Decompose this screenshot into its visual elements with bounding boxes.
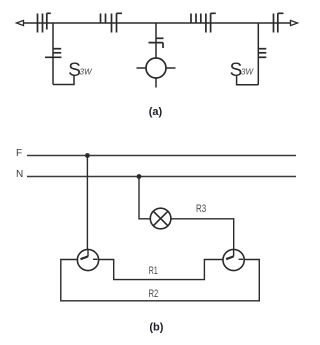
svg-text:F: F — [16, 148, 22, 159]
svg-text:R2: R2 — [149, 288, 159, 300]
svg-text:3W: 3W — [241, 68, 254, 77]
conductor tick group 1 (two conductors + return flag) — [38, 13, 51, 32]
wire: main feed run (diagram a) — [17, 22, 297, 24]
switch S3W left (hook + label) — [53, 60, 93, 84]
svg-text:3W: 3W — [80, 68, 93, 77]
wire: N drop to lamp — [139, 177, 150, 219]
wire R2: traveler outer loop — [61, 260, 259, 301]
right feed arrowhead — [291, 20, 298, 25]
lamp (diagram b) — [150, 208, 171, 229]
svg-text:R1: R1 — [149, 265, 158, 277]
three-way switch right (diagram b) — [223, 249, 244, 270]
svg-text:(a): (a) — [149, 106, 163, 118]
wire R3: lamp to right switch — [171, 219, 234, 250]
switch S3W right (hook + label) — [230, 60, 259, 85]
three-way switch left (diagram b) — [77, 249, 98, 270]
conductor ticks on lamp drop (tick + flagged crossing tick) — [149, 38, 164, 48]
junction dot on F — [85, 153, 90, 158]
svg-text:N: N — [16, 169, 23, 180]
conductor tick group 2 (two neutrals + conductor + return flag) — [101, 13, 123, 32]
wire: phase bus F — [27, 155, 296, 157]
conductor ticks on left drop — [45, 49, 61, 58]
junction dot on N — [137, 174, 142, 179]
conductor tick group 4 (conductor + return flag) — [274, 13, 284, 32]
left feed arrowhead — [17, 20, 24, 25]
svg-text:(b): (b) — [149, 321, 163, 333]
wire R1: traveler between switches — [99, 260, 223, 280]
wire: drop to left three-way switch — [52, 23, 54, 85]
svg-text:R3: R3 — [196, 203, 206, 215]
wire: neutral bus N — [27, 176, 296, 178]
wire: drop to right three-way switch — [257, 23, 259, 85]
conductor tick group 3 (three neutrals + conductor + return flag) — [191, 13, 216, 32]
wire: drop to lamp outlet (middle) — [155, 23, 157, 58]
lamp outlet (diagram a) — [137, 58, 176, 88]
wire: F drop to left switch — [86, 156, 88, 250]
conductor ticks on right drop — [258, 49, 266, 58]
